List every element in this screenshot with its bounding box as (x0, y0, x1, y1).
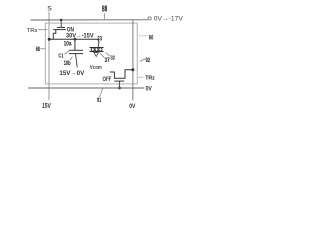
svg-text:60: 60 (149, 35, 154, 42)
capacitor C1 bottom plate (69, 53, 83, 55)
node junction dot on S bus (48, 38, 51, 41)
pixel box 60 outline (45, 23, 137, 84)
svg-text:15V: 15V (42, 103, 51, 110)
wire 0V drop line (132, 20, 134, 100)
capacitor LC cell top plate (90, 47, 104, 49)
wire leader 37 (100, 53, 105, 58)
wire gate bus horizontal (31, 19, 148, 21)
wire leader C1 (64, 50, 70, 54)
svg-text:0V→-17V: 0V→-17V (154, 16, 184, 23)
wire TRz gate feed (119, 81, 121, 88)
svg-text:S: S (47, 6, 52, 13)
wire C1 top feed (74, 39, 76, 50)
capacitor LC cell bottom plate (90, 51, 104, 53)
svg-text:33: 33 (97, 36, 102, 42)
transistor TRs gate bar (57, 26, 65, 28)
wire leader 88 (103, 13, 105, 19)
transistor TRs source lead staircase (53, 30, 56, 40)
svg-text:10b: 10b (64, 61, 71, 67)
wire leader 68 (40, 48, 45, 50)
wire TRs gate feed (60, 20, 62, 27)
transistor TRz channel staircase (110, 70, 133, 79)
arrow Vcom triangle (94, 52, 99, 56)
svg-text:37: 37 (105, 58, 111, 64)
wire LC feed (97, 39, 99, 47)
wire C1 bottom stub (76, 54, 78, 68)
wire leader 91 (99, 88, 103, 97)
svg-text:0V: 0V (129, 103, 136, 110)
svg-text:TRs: TRs (27, 28, 38, 34)
svg-text:68: 68 (36, 47, 41, 53)
node junction dot TRz drain (131, 68, 134, 71)
wire leader 32 (106, 53, 111, 57)
node junction dot TRz gate on rail (118, 87, 121, 90)
wire pixel node horizontal (49, 38, 98, 40)
terminal circle gate input (148, 17, 151, 20)
svg-text:88: 88 (102, 4, 107, 14)
wire leader TRs (38, 29, 47, 31)
transistor TRs channel (53, 29, 66, 31)
svg-text:30V→-15V: 30V→-15V (66, 32, 94, 39)
wire dashed leader 60 (139, 35, 148, 37)
transistor TRz gate bar (114, 80, 124, 82)
wire source bus S vertical (48, 12, 50, 100)
capacitor C1 top plate (69, 49, 83, 51)
svg-text:TRz: TRz (145, 76, 155, 82)
svg-text:92: 92 (146, 57, 151, 64)
svg-text:OFF: OFF (103, 76, 112, 83)
wire dashed leader TRz (138, 76, 144, 78)
wire leader 33 (98, 41, 101, 44)
wire leader 92 (140, 59, 145, 62)
svg-text:0V: 0V (146, 86, 153, 93)
svg-text:10a: 10a (64, 40, 72, 47)
svg-text:15V→0V: 15V→0V (59, 70, 85, 77)
liquid crystal molecules circles (91, 48, 94, 51)
node junction dot gate feed (60, 19, 63, 22)
svg-text:91: 91 (97, 97, 102, 104)
wire leader 10b (70, 57, 73, 61)
wire bottom rail 91 (28, 87, 144, 89)
svg-text:Vcom: Vcom (90, 65, 102, 71)
node junction dot C1 feed (74, 38, 77, 41)
svg-text:C1: C1 (58, 53, 63, 59)
svg-text:32: 32 (111, 56, 115, 62)
